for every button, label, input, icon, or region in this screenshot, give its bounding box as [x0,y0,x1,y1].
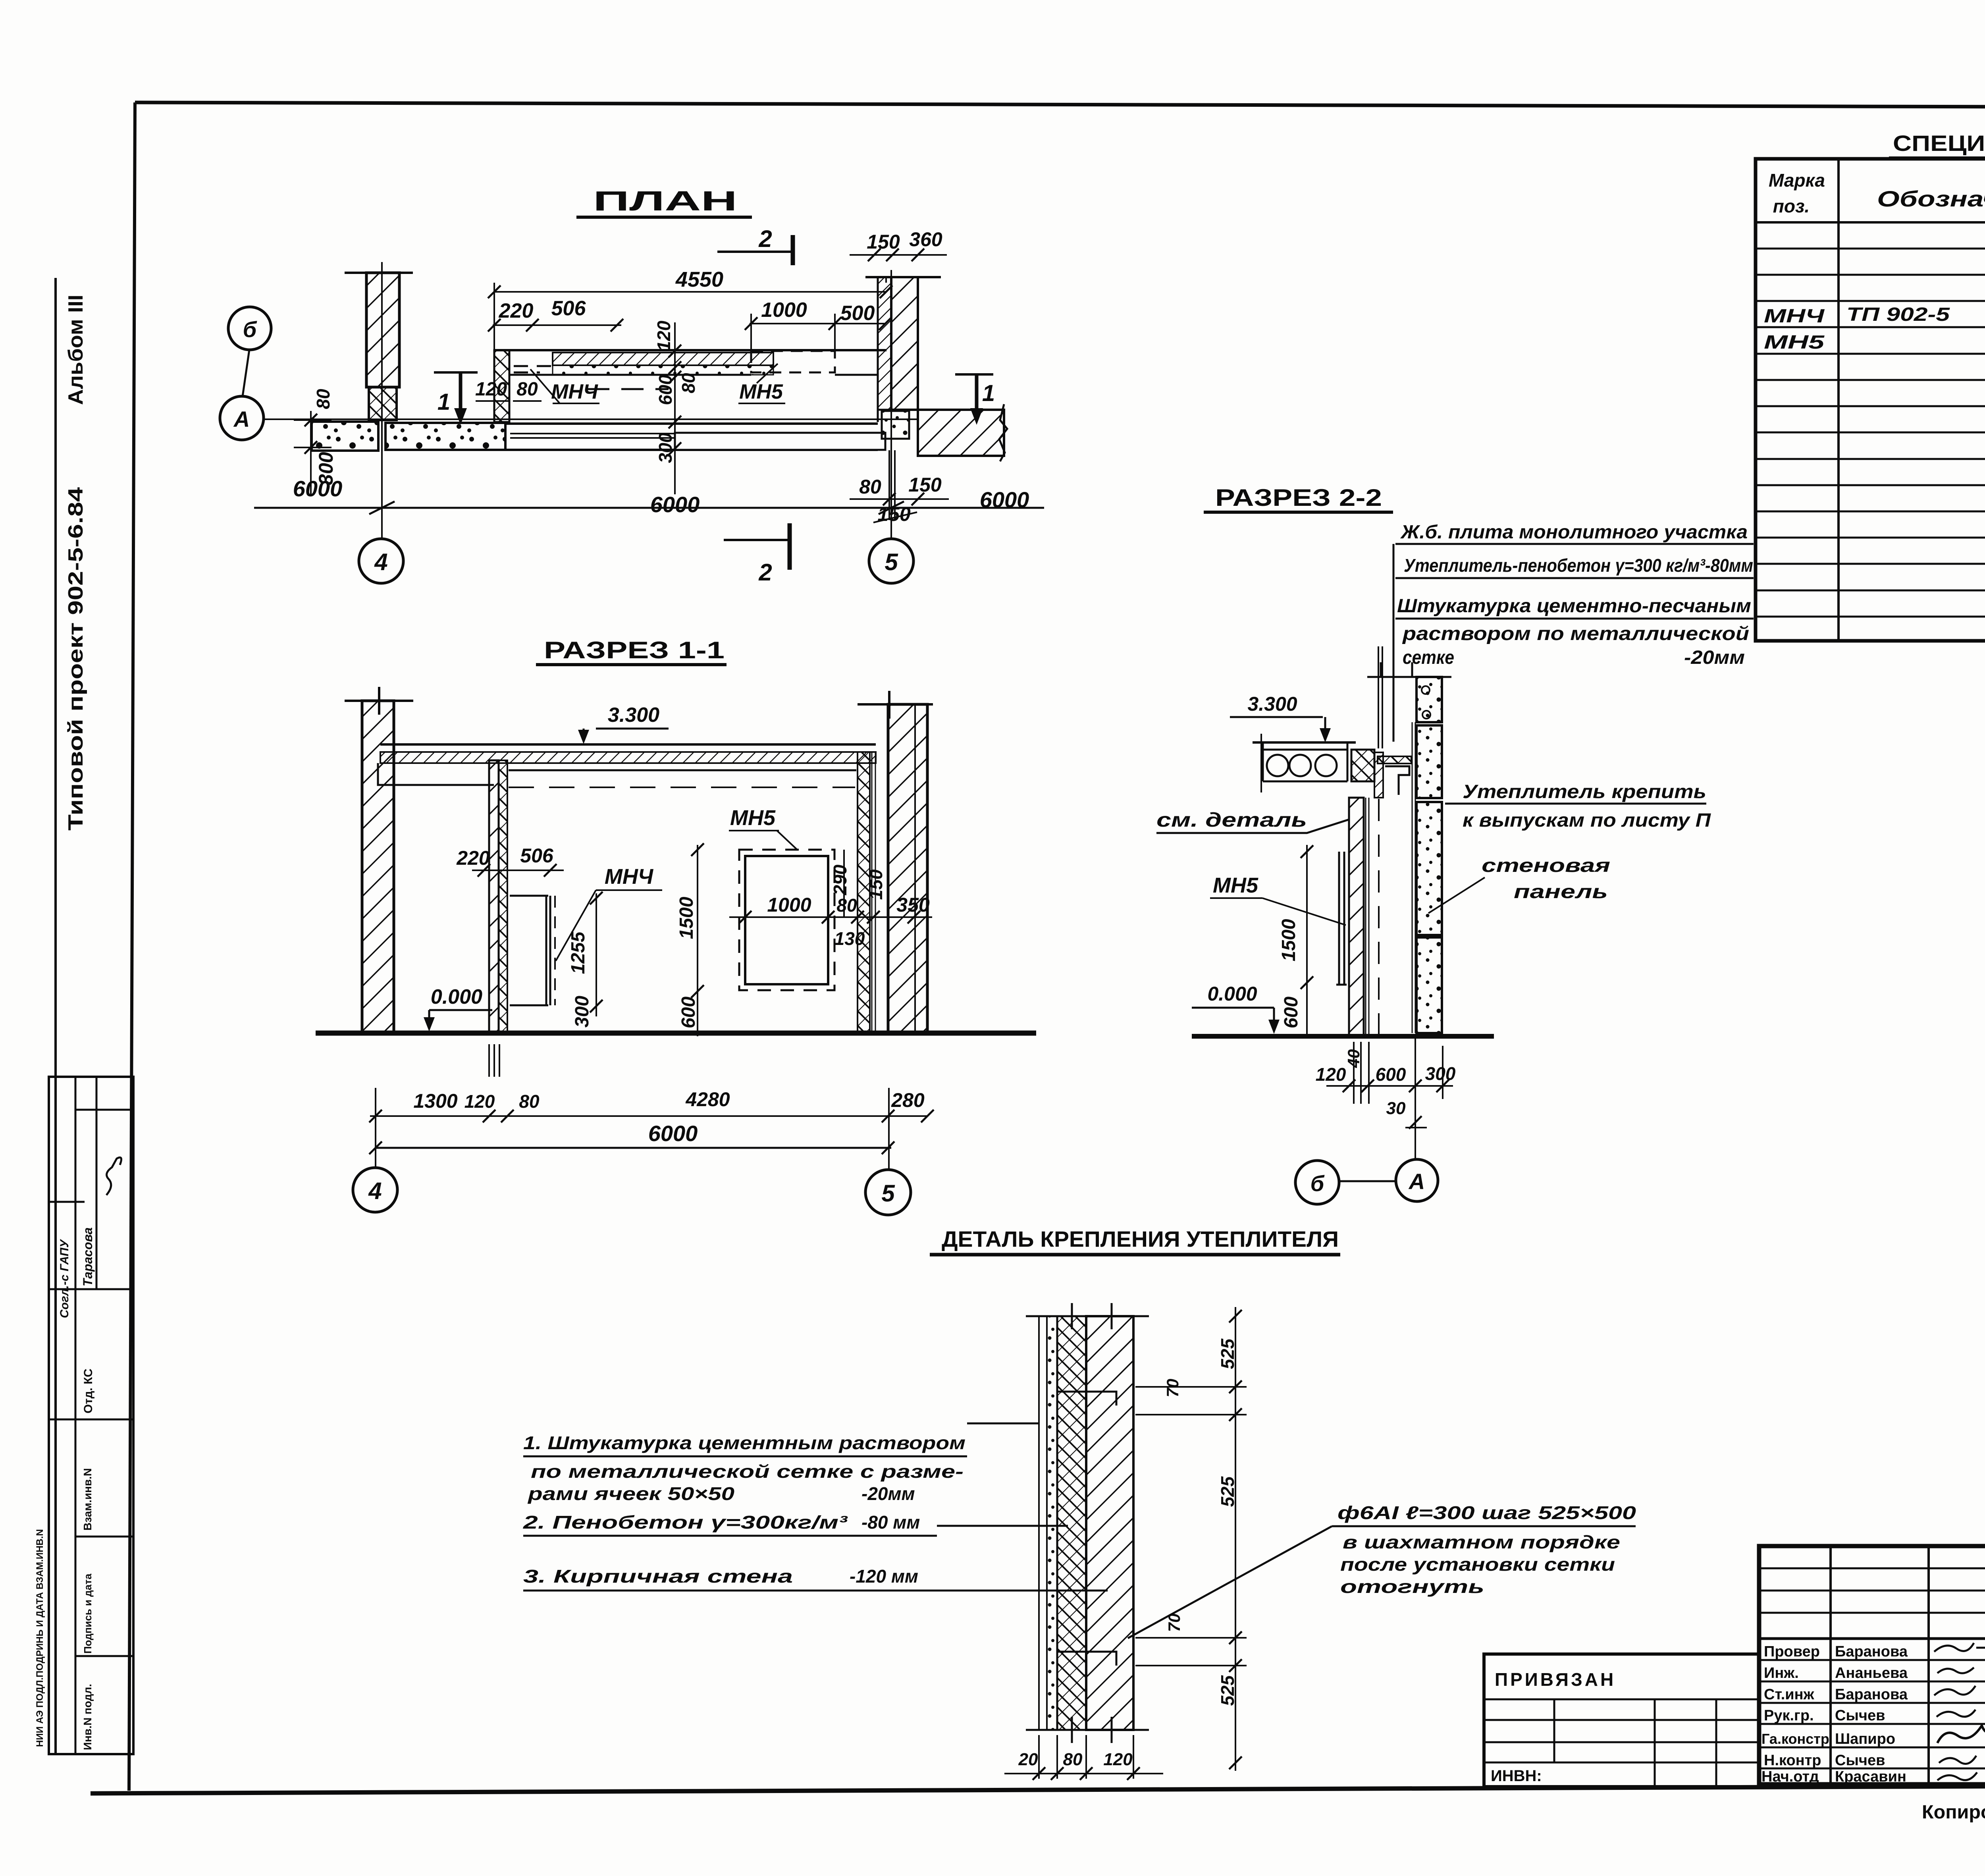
corner wall horizontal band [918,410,1004,456]
right insulation strip [858,752,870,1032]
svg-text:3.300: 3.300 [608,704,659,727]
svg-text:1000: 1000 [761,299,807,322]
svg-text:350: 350 [896,894,930,916]
svg-text:290: 290 [830,864,850,895]
svg-text:1500: 1500 [1278,919,1299,961]
svg-text:150: 150 [865,869,886,900]
dim 290 sec11 [843,850,845,917]
MNCH dashes plan [514,366,552,372]
svg-text:Ананьева: Ананьева [1835,1665,1908,1681]
axis circle B [228,307,271,350]
svg-text:80: 80 [1063,1750,1083,1769]
svg-text:500: 500 [840,302,875,325]
svg-text:Сычев: Сычев [1835,1752,1885,1769]
MN5 dashed plate plan [751,351,835,372]
dim 1255 sec11 [595,893,597,1016]
MN5 plate dashed outline [739,850,834,990]
svg-text:6000: 6000 [980,487,1029,512]
svg-text:Н.контр: Н.контр [1764,1752,1821,1769]
svg-text:МНЧ: МНЧ [605,865,654,889]
svg-text:Ж.б. плита монолитного участка: Ж.б. плита монолитного участка [1400,522,1748,543]
svg-text:А: А [1408,1169,1425,1194]
axis circle B sec22 [1295,1161,1339,1204]
svg-text:1255: 1255 [568,931,589,974]
svg-text:Инв.N подл.: Инв.N подл. [81,1684,94,1750]
axis circle A sec22 [1396,1159,1438,1201]
svg-text:РАЗРЕЗ 1-1: РАЗРЕЗ 1-1 [544,637,725,663]
wall step polyline [1385,766,1409,795]
corner wall inner band [878,277,891,410]
svg-text:-20мм: -20мм [861,1483,915,1504]
svg-text:раствором по металлической: раствором по металлической [1402,623,1749,644]
svg-text:РАЗРЕЗ 2-2: РАЗРЕЗ 2-2 [1215,484,1382,511]
svg-text:0.000: 0.000 [431,985,482,1008]
svg-text:1. Штукатурка цементным раство: 1. Штукатурка цементным раствором [523,1433,966,1453]
frame top line [135,102,1985,108]
svg-text:3.300: 3.300 [1247,693,1297,715]
svg-text:280: 280 [891,1089,925,1111]
detail title underline [930,1253,1340,1257]
svg-text:600: 600 [1376,1064,1406,1085]
spec header row line [1756,221,1985,224]
rebar hook bottom [1057,1652,1116,1666]
SECTION11 [316,637,1036,1215]
svg-text:МН5: МН5 [1764,332,1825,353]
ceiling top line [380,743,876,746]
svg-text:1: 1 [437,389,450,415]
inner partition wall [489,760,499,1032]
svg-text:ф6АI ℓ=300 шаг 525×500: ф6АI ℓ=300 шаг 525×500 [1337,1502,1636,1523]
svg-text:4550: 4550 [675,268,723,291]
svg-text:Баранова: Баранова [1835,1686,1908,1703]
floor strip B [385,423,505,450]
section mark 1 left [434,371,478,374]
svg-text:ИНВН:: ИНВН: [1491,1767,1542,1785]
svg-text:Согл.-с ГАПУ: Согл.-с ГАПУ [58,1239,71,1318]
below ground wall lines [1354,1042,1369,1104]
title block outer [1759,1546,1985,1784]
pilaster concrete block [369,387,397,420]
ceiling dashed line [509,787,855,788]
detail foam band [1057,1316,1086,1730]
svg-text:ПРИВЯЗАН: ПРИВЯЗАН [1495,1669,1616,1690]
svg-text:Подпись и дата: Подпись и дата [82,1573,94,1654]
detail brick band [1086,1316,1133,1730]
svg-text:МН5: МН5 [1213,873,1258,897]
svg-text:220: 220 [499,299,534,322]
chamber mid dashed line [587,388,669,390]
side stamp rows [49,1110,133,1656]
corner wall top cap [865,276,941,278]
svg-text:120: 120 [1316,1064,1346,1085]
spec title underline [1889,156,1985,160]
note leader 2 [937,1525,1068,1527]
detail wall plaster lines [1039,1316,1047,1730]
chamber south duct rect [675,433,885,450]
left brick wall section [362,701,394,1032]
frame left line [129,102,135,1791]
anchor pair top [1378,646,1382,748]
title block verticals [1831,1546,1985,1784]
right brick wall section [888,704,927,1032]
left wall top cap [345,687,413,715]
svg-text:Копировал: Каршунова 19746-03: Копировал: Каршунова 19746-03 [1922,1802,1985,1823]
spec table columns [1839,159,1985,641]
svg-text:-20мм: -20мм [1684,647,1745,668]
svg-text:20: 20 [1018,1750,1038,1769]
svg-text:130: 130 [834,928,865,949]
SPECTABLE [1756,131,1985,641]
privyazan block [1484,1654,1759,1787]
panel edge extension [1442,1046,1443,1099]
slab left step [378,763,494,785]
svg-text:Га.констр: Га.констр [1761,1731,1829,1747]
chamber top wall hatched band [553,353,773,365]
svg-text:506: 506 [551,297,586,320]
svg-text:30: 30 [1386,1099,1406,1118]
svg-text:панель: панель [1514,881,1608,902]
svg-text:6000: 6000 [648,1121,698,1146]
grid circle 4 [359,539,403,583]
wall panel block 4 [1416,937,1442,1033]
right wall plaster lines [872,752,875,1032]
bottom dim chain sec22 [1326,1085,1453,1087]
SECTION22 [1156,484,1754,1204]
svg-text:80: 80 [859,476,881,498]
svg-text:5: 5 [881,1180,895,1207]
svg-text:506: 506 [520,844,554,867]
center dim line sec11 [729,916,932,918]
svg-text:3. Кирпичная стена: 3. Кирпичная стена [523,1566,793,1587]
svg-text:отогнуть: отогнуть [1340,1576,1484,1597]
svg-text:стеновая: стеновая [1482,855,1610,876]
detail vertical dim line [1235,1307,1236,1771]
svg-text:4280: 4280 [685,1088,730,1111]
main wall sec22 [1349,798,1364,1036]
rebar hook top [1057,1392,1116,1406]
LEFTMARGIN [35,278,133,1754]
ground line sec22 [1192,1034,1494,1039]
left wall column plan [366,273,399,387]
span dim line 6000 [254,507,1044,509]
wall panel block 3 [1416,802,1442,935]
svg-text:1: 1 [982,380,995,406]
chamber top insulation band [553,365,773,375]
TITLEBLOCK [1484,1546,1985,1823]
svg-text:80: 80 [313,389,333,409]
margin vertical rule [54,278,57,1754]
svg-text:1300: 1300 [413,1090,457,1112]
svg-text:40: 40 [1344,1049,1363,1068]
svg-text:80: 80 [678,373,699,393]
svg-text:120: 120 [464,1091,495,1112]
chamber inner top line [509,374,878,376]
svg-text:5: 5 [885,549,898,575]
chamber right inner edge [877,375,879,422]
chamber south wall lines [505,424,878,450]
svg-text:ТП 902-5: ТП 902-5 [1846,304,1950,325]
axis 5 sec11 [888,1088,890,1170]
main band line [1759,1637,1985,1640]
svg-text:Баранова: Баранова [1835,1643,1908,1660]
room ceiling inner line [509,769,856,771]
svg-text:ДЕТАЛЬ КРЕПЛЕНИЯ УТЕПЛИТЕЛЯ: ДЕТАЛЬ КРЕПЛЕНИЯ УТЕПЛИТЕЛЯ [942,1226,1339,1251]
svg-text:300: 300 [572,996,593,1028]
MNCH embedded element [510,896,550,1005]
svg-text:1500: 1500 [676,897,697,939]
detail dim stubs [1135,1387,1247,1666]
svg-text:НИИ АЭ ПОДЛ.ПОДРИНЬ И ДАТА ВЗ: НИИ АЭ ПОДЛ.ПОДРИНЬ И ДАТА ВЗАМ.ИНВ.N [35,1529,45,1747]
upper wall bit [1374,752,1383,798]
center vertical dim chain [674,322,676,494]
svg-text:6000: 6000 [650,492,700,517]
side stamp signature scribble [106,1157,121,1195]
grid circle 5 [869,539,913,583]
svg-text:после установки сетки: после установки сетки [1340,1554,1615,1575]
signatures scribbles [1934,1643,1985,1652]
svg-text:2. Пенобетон γ=300кг/м³: 2. Пенобетон γ=300кг/м³ [523,1512,848,1533]
detail top cap [1026,1303,1149,1329]
svg-text:120: 120 [1103,1750,1133,1769]
PLANVIEW [220,185,1044,586]
svg-text:525: 525 [1217,1476,1238,1507]
spec table outer [1756,159,1985,641]
svg-text:2: 2 [758,559,772,586]
wall top cap [345,272,413,274]
svg-text:см. деталь: см. деталь [1156,809,1307,831]
svg-text:МН5: МН5 [730,806,776,830]
hollow core slab sec22 [1253,741,1356,744]
axis B-A connector [243,350,249,396]
svg-text:рами ячеек 50×50: рами ячеек 50×50 [527,1483,734,1504]
rebar note leader [1128,1526,1332,1638]
insulation strip horizontal [1378,756,1411,764]
svg-text:СПЕЦИФИКАЦИЯ К ВЕНТКАМЕРЕ: СПЕЦИФИКАЦИЯ К ВЕНТКАМЕРЕ [1893,131,1985,156]
svg-text:по металлической сетке с разме: по металлической сетке с разме- [531,1461,964,1482]
svg-text:120: 120 [475,379,507,400]
side stamp box [49,1077,133,1754]
svg-text:Рук.гр.: Рук.гр. [1764,1707,1814,1724]
MN5 plate inner rect [745,856,828,984]
svg-text:4: 4 [374,549,387,575]
MN5 element sec22 [1336,852,1347,985]
section 1-1 title underline [536,663,727,666]
svg-text:Ст.инж: Ст.инж [1764,1686,1815,1703]
svg-text:Сычев: Сычев [1835,1707,1885,1724]
svg-text:Штукатурка цементно-песчаным: Штукатурка цементно-песчаным [1397,596,1751,617]
note leader 1 [967,1423,1039,1425]
svg-text:150: 150 [867,231,900,253]
svg-text:525: 525 [1217,1675,1238,1706]
svg-text:Тарасова: Тарасова [81,1227,95,1286]
corner break mark [999,404,1007,461]
svg-text:600: 600 [1281,997,1302,1028]
svg-text:Шапиро: Шапиро [1835,1731,1895,1747]
partition insulation strip [499,760,507,1032]
DETAILVIEW [523,1226,1636,1780]
detail bottom cap [1026,1717,1149,1743]
detail mesh strip [1047,1316,1057,1730]
ceiling slab hatched band [380,752,876,763]
svg-text:80: 80 [836,895,857,916]
svg-text:Типовой проект 902-5-6.84: Типовой проект 902-5-6.84 [64,487,87,831]
ground line sec11 [316,1031,1036,1036]
svg-text:0.000: 0.000 [1207,983,1257,1005]
detail bottom dims [1004,1773,1163,1774]
svg-text:2: 2 [758,226,772,252]
axis 4 sec11 [375,1088,376,1168]
svg-text:поз.: поз. [1773,196,1810,216]
right wall top cap [858,691,933,719]
svg-text:Альбом III: Альбом III [64,295,87,405]
svg-text:Нач.отд: Нач.отд [1761,1768,1819,1785]
svg-text:Утеплитель-пенобетон γ=300 кг/: Утеплитель-пенобетон γ=300 кг/м³-80мм [1404,555,1753,576]
dim 30 sec22 [1405,1036,1427,1159]
svg-text:-120 мм: -120 мм [850,1566,918,1587]
wall panel block 2 [1416,725,1442,798]
title block top rows [1759,1568,1985,1613]
svg-text:300: 300 [1425,1063,1456,1084]
svg-text:1000: 1000 [767,894,811,916]
note leader vertical [1393,544,1395,742]
svg-text:600: 600 [678,997,699,1028]
partition below ground [489,1044,499,1077]
chamber left wall band [494,350,509,422]
side stamp inner vertical 2 [96,1077,98,1289]
svg-text:600: 600 [655,374,676,405]
chamber top outer line [494,349,887,351]
top cap sec22 [1367,662,1451,677]
corner lower double lines [889,450,895,520]
svg-text:Утеплитель крепить: Утеплитель крепить [1463,781,1706,802]
svg-text:МНЧ: МНЧ [1764,306,1825,327]
dim 80 vertical left [294,411,331,494]
panel lifting loops [1422,686,1430,694]
monolith insert crosshatch [1351,750,1374,781]
svg-text:Обозначение: Обозначение [1877,186,1985,211]
axis A line [264,418,917,420]
wall panel block 1 [1416,677,1442,722]
slab end tick [1260,734,1262,792]
svg-text:Взам.инв.N: Взам.инв.N [81,1468,94,1531]
svg-text:Инж.: Инж. [1764,1665,1799,1681]
svg-text:б: б [243,317,257,342]
svg-text:в шахматном порядке: в шахматном порядке [1343,1532,1620,1552]
dim 1500 sec11 [697,845,698,1036]
section mark 1 right [955,373,993,376]
side stamp inner vertical 1 [75,1077,77,1754]
spec row lines [1756,249,1985,617]
svg-text:300: 300 [655,432,676,463]
right wall inner line [914,704,916,1032]
grid line 5 [890,270,892,539]
section 2-2 title underline [1204,511,1393,514]
grid line 4 [381,262,383,539]
panel joint strip [1412,722,1415,1033]
svg-text:525: 525 [1217,1338,1238,1369]
plan title underline [576,216,752,219]
svg-text:А: А [233,407,250,432]
svg-text:ПЛАН: ПЛАН [593,185,737,216]
svg-text:Провер: Провер [1764,1643,1820,1660]
svg-text:150: 150 [908,474,942,496]
svg-text:Отд. КС: Отд. КС [82,1369,95,1413]
svg-text:4: 4 [368,1178,382,1204]
corner concrete block [882,411,909,439]
svg-text:360: 360 [909,228,942,251]
note leader 3 [937,1590,1108,1592]
svg-text:80: 80 [519,1091,540,1112]
axis dashed line sec22 [1378,799,1380,1036]
svg-text:б: б [1310,1171,1325,1196]
svg-text:сетке: сетке [1403,647,1454,668]
svg-text:Красавин: Красавин [1835,1768,1906,1785]
dim 1500 sec22 [1306,845,1308,1036]
wall face lines [1366,798,1369,1036]
floor strip A [312,422,378,451]
svg-text:70: 70 [1163,1379,1182,1398]
svg-text:-80 мм: -80 мм [861,1512,920,1533]
frame bottom line [91,1784,1985,1793]
circles connector sec22 [1339,1180,1396,1182]
svg-text:80: 80 [516,379,538,400]
svg-text:МН5: МН5 [739,380,783,403]
svg-text:МНЧ: МНЧ [551,380,598,403]
svg-text:120: 120 [653,320,674,351]
staff row lines [1759,1660,1985,1768]
svg-text:Марка: Марка [1769,170,1825,191]
corner wall outer band [891,277,918,410]
axis circle A [220,396,264,440]
svg-text:220: 220 [456,847,490,869]
svg-text:к выпускам по листу П: к выпускам по листу П [1463,810,1711,831]
bottom dim chain sec11 [370,1115,927,1117]
svg-text:300: 300 [315,452,337,485]
